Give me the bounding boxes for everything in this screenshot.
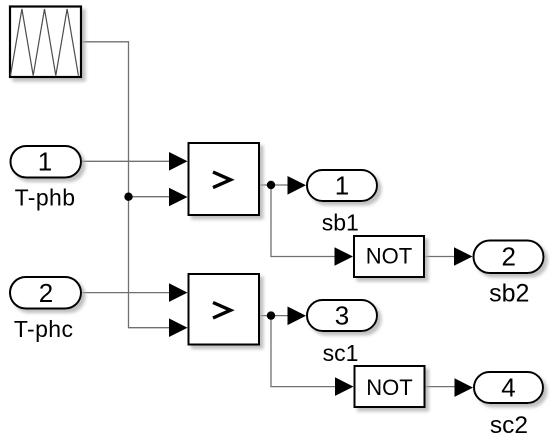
svg-text:sb2: sb2 xyxy=(489,280,529,308)
svg-text:2: 2 xyxy=(501,242,515,272)
svg-text:1: 1 xyxy=(335,171,349,201)
svg-text:T-phc: T-phc xyxy=(14,316,74,342)
svg-text:NOT: NOT xyxy=(366,243,412,268)
svg-text:T-phb: T-phb xyxy=(15,184,76,210)
svg-text:4: 4 xyxy=(501,373,515,403)
svg-text:sc2: sc2 xyxy=(490,412,528,439)
svg-text:3: 3 xyxy=(335,301,349,331)
svg-text:sc1: sc1 xyxy=(323,340,359,366)
svg-text:NOT: NOT xyxy=(366,375,412,400)
svg-text:2: 2 xyxy=(39,278,53,308)
svg-text:1: 1 xyxy=(38,146,52,176)
svg-text:sb1: sb1 xyxy=(322,210,359,236)
